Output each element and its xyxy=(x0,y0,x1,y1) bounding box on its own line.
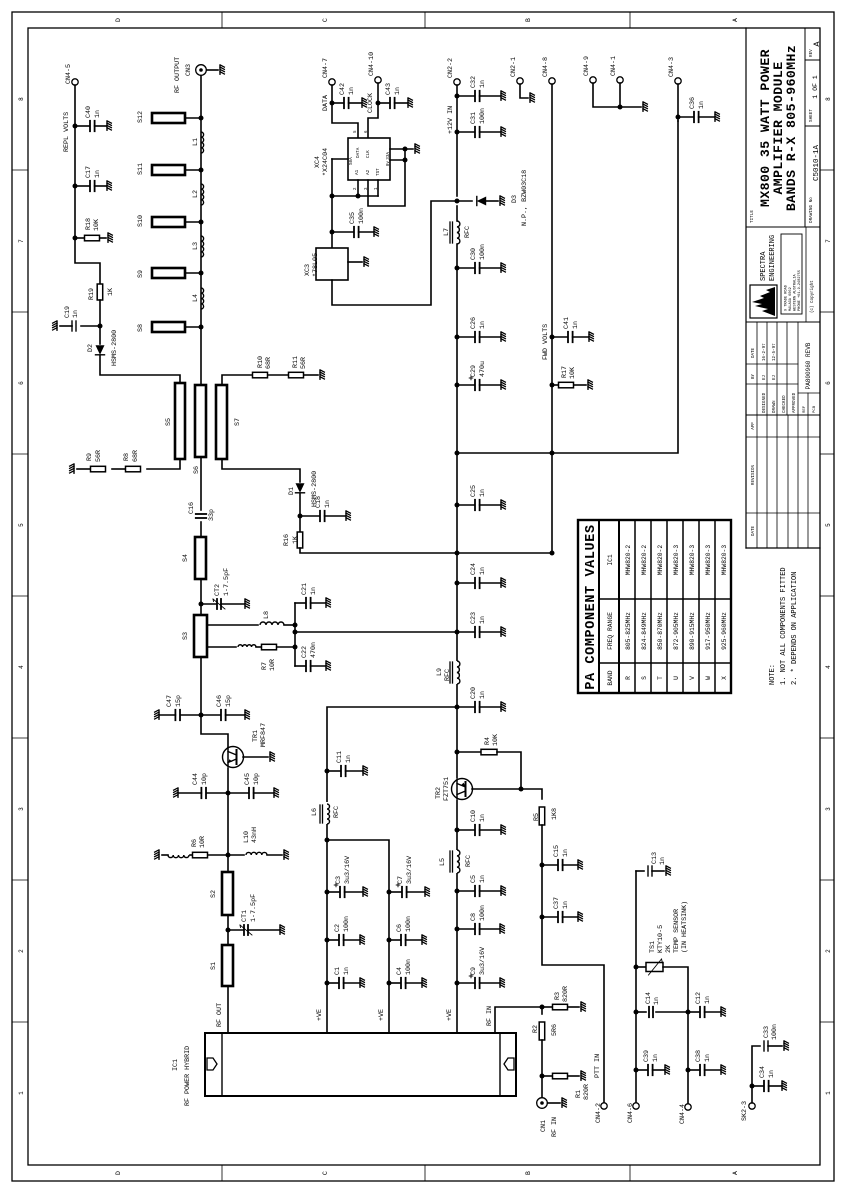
svg-text:R7: R7 xyxy=(261,662,269,670)
svg-text:7: 7 xyxy=(825,239,832,243)
svg-text:4: 4 xyxy=(18,665,25,669)
svg-text:C38: C38 xyxy=(695,1050,703,1062)
svg-text:S11: S11 xyxy=(137,163,145,175)
svg-text:1n: 1n xyxy=(394,87,402,95)
svg-text:805-825MHz: 805-825MHz xyxy=(625,612,632,650)
svg-text:16-2-97: 16-2-97 xyxy=(763,343,767,361)
svg-text:15p: 15p xyxy=(175,695,183,707)
svg-text:1n: 1n xyxy=(94,110,102,118)
svg-text:10p: 10p xyxy=(201,773,209,785)
svg-text:3u3/16V: 3u3/16V xyxy=(406,856,414,884)
svg-text:C15: C15 xyxy=(553,845,561,857)
svg-text:890-915MHz: 890-915MHz xyxy=(689,612,696,650)
svg-text:DATE: DATE xyxy=(752,347,756,358)
svg-text:S7: S7 xyxy=(234,418,242,426)
svg-text:872-905MHz: 872-905MHz xyxy=(673,612,680,650)
svg-text:SK2-3: SK2-3 xyxy=(741,1101,749,1121)
svg-text:R9: R9 xyxy=(86,453,94,461)
svg-text:C41: C41 xyxy=(563,317,571,329)
svg-text:L6: L6 xyxy=(311,808,319,816)
svg-text:C18: C18 xyxy=(315,496,323,508)
svg-text:100n: 100n xyxy=(479,108,487,124)
svg-text:0v: 0v xyxy=(386,161,391,167)
svg-text:CN4-1: CN4-1 xyxy=(610,56,618,76)
svg-text:MHW820-3: MHW820-3 xyxy=(721,545,728,575)
svg-text:100n: 100n xyxy=(343,916,351,932)
svg-text:L3: L3 xyxy=(192,242,200,250)
svg-text:S9: S9 xyxy=(137,270,145,278)
svg-text:R: R xyxy=(625,676,632,680)
svg-text:CT2: CT2 xyxy=(214,584,222,596)
svg-text:RFC: RFC xyxy=(333,806,341,818)
svg-text:L7: L7 xyxy=(443,228,451,236)
svg-text:1n: 1n xyxy=(479,321,487,329)
svg-text:824-849MHz: 824-849MHz xyxy=(641,612,648,650)
svg-text:9 TRADE ROAD: 9 TRADE ROAD xyxy=(785,285,789,311)
svg-text:3u3/16V: 3u3/16V xyxy=(479,947,487,975)
svg-text:MHW820-2: MHW820-2 xyxy=(625,545,632,575)
svg-text:100n: 100n xyxy=(405,916,413,932)
svg-text:CLOCK: CLOCK xyxy=(367,93,375,113)
svg-text:C43: C43 xyxy=(385,83,393,95)
svg-text:R2: R2 xyxy=(532,1025,540,1033)
svg-text:1: 1 xyxy=(825,1091,832,1095)
svg-text:A2: A2 xyxy=(366,169,371,175)
svg-text:C46: C46 xyxy=(216,695,224,707)
svg-text:CN1: CN1 xyxy=(540,1120,548,1132)
svg-text:DATE: DATE xyxy=(752,525,756,536)
svg-text:10R: 10R xyxy=(269,659,277,671)
svg-text:TEMP SENSOR: TEMP SENSOR xyxy=(673,909,681,953)
svg-text:S4: S4 xyxy=(182,554,190,562)
svg-text:850-870MHz: 850-870MHz xyxy=(657,612,664,650)
svg-text:5R6: 5R6 xyxy=(551,1024,559,1036)
svg-text:470u: 470u xyxy=(479,361,487,377)
svg-text:PCB: PCB xyxy=(813,405,817,413)
svg-text:DATA: DATA xyxy=(322,94,330,111)
svg-text:2. * DEPENDS ON APPLICATION: 2. * DEPENDS ON APPLICATION xyxy=(791,572,799,685)
svg-text:TR2: TR2 xyxy=(435,787,443,799)
svg-text:R19: R19 xyxy=(88,288,96,300)
svg-text:3: 3 xyxy=(18,807,25,811)
svg-text:C12: C12 xyxy=(695,992,703,1004)
svg-text:1. NOT ALL COMPONENTS FITTED: 1. NOT ALL COMPONENTS FITTED xyxy=(780,567,788,685)
svg-text:L8: L8 xyxy=(263,611,271,619)
svg-text:CN4-8: CN4-8 xyxy=(542,57,550,77)
svg-text:820R: 820R xyxy=(562,986,570,1002)
svg-text:(c) Copyright: (c) Copyright xyxy=(810,280,815,313)
svg-text:D: D xyxy=(115,18,122,22)
svg-text:925-960MHz: 925-960MHz xyxy=(721,612,728,650)
svg-text:S8: S8 xyxy=(137,324,145,332)
svg-text:7: 7 xyxy=(18,239,25,243)
svg-text:REVISION: REVISION xyxy=(752,464,756,485)
svg-text:RF OUT: RF OUT xyxy=(216,1003,224,1027)
svg-text:WESTERN AUSTRALIA: WESTERN AUSTRALIA xyxy=(794,273,798,311)
svg-text:1n: 1n xyxy=(768,1070,776,1078)
svg-text:L1: L1 xyxy=(192,138,200,146)
svg-text:43nH: 43nH xyxy=(251,827,259,843)
svg-text:1n: 1n xyxy=(343,967,351,975)
svg-text:1n: 1n xyxy=(572,321,580,329)
svg-text:RF OUTPUT: RF OUTPUT xyxy=(174,57,182,93)
svg-text:REPL VOLTS: REPL VOLTS xyxy=(63,112,71,152)
svg-text:1n: 1n xyxy=(479,875,487,883)
svg-text:C24: C24 xyxy=(470,563,478,575)
svg-text:8: 8 xyxy=(18,97,25,101)
svg-text:L2: L2 xyxy=(192,190,200,198)
svg-text:MHW820-3: MHW820-3 xyxy=(689,545,696,575)
svg-text:MHW820-2: MHW820-2 xyxy=(641,545,648,575)
svg-text:S: S xyxy=(641,676,648,680)
svg-text:CN4-3: CN4-3 xyxy=(668,57,676,77)
svg-text:REF: REF xyxy=(803,405,807,413)
svg-text:SPECTRA: SPECTRA xyxy=(760,251,768,281)
svg-text:1n: 1n xyxy=(348,87,356,95)
svg-text:CN2-1: CN2-1 xyxy=(510,57,518,77)
svg-text:(IN HEATSINK): (IN HEATSINK) xyxy=(681,901,689,953)
svg-text:C8: C8 xyxy=(470,913,478,921)
svg-text:R16: R16 xyxy=(283,534,291,546)
svg-text:TST: TST xyxy=(376,168,381,176)
svg-text:C11: C11 xyxy=(336,751,344,763)
svg-text:MALAGA 6062: MALAGA 6062 xyxy=(789,287,793,311)
svg-text:FZT751: FZT751 xyxy=(443,777,451,801)
svg-text:1K8: 1K8 xyxy=(551,808,559,820)
svg-text:+VE: +VE xyxy=(316,1009,324,1021)
svg-text:100n: 100n xyxy=(479,244,487,260)
svg-text:10K: 10K xyxy=(492,734,500,746)
svg-text:1 OF 1: 1 OF 1 xyxy=(812,75,819,99)
svg-text:3u3/16V: 3u3/16V xyxy=(344,856,352,884)
svg-text:IC1: IC1 xyxy=(172,1059,180,1071)
svg-text:ENGINEERING: ENGINEERING xyxy=(769,235,777,281)
svg-text:470n: 470n xyxy=(310,642,318,658)
svg-text:XC3: XC3 xyxy=(304,264,312,276)
svg-text:10p: 10p xyxy=(253,773,261,785)
svg-text:D3: D3 xyxy=(511,195,519,203)
svg-text:C32: C32 xyxy=(470,76,478,88)
svg-text:R3: R3 xyxy=(554,992,562,1000)
svg-text:R10: R10 xyxy=(257,356,265,368)
svg-text:15p: 15p xyxy=(225,695,233,707)
svg-text:DRAWN: DRAWN xyxy=(773,400,777,413)
svg-text:HSMS-2800: HSMS-2800 xyxy=(111,330,119,366)
svg-text:2: 2 xyxy=(18,949,25,953)
svg-text:C44: C44 xyxy=(192,773,200,785)
svg-text:33A: 33A xyxy=(386,152,391,160)
svg-text:C36: C36 xyxy=(689,97,697,109)
svg-text:C42: C42 xyxy=(339,83,347,95)
svg-text:C35: C35 xyxy=(349,212,357,224)
svg-text:A: A xyxy=(732,18,739,22)
svg-text:S0A: S0A xyxy=(349,157,354,165)
svg-text:1n: 1n xyxy=(72,310,80,318)
svg-text:TR1: TR1 xyxy=(252,730,260,742)
svg-text:C14: C14 xyxy=(645,992,653,1004)
svg-text:R17: R17 xyxy=(561,366,569,378)
svg-text:C33: C33 xyxy=(763,1026,771,1038)
svg-text:C13: C13 xyxy=(651,852,659,864)
svg-text:MHW820-2: MHW820-2 xyxy=(657,545,664,575)
svg-text:C10: C10 xyxy=(470,810,478,822)
svg-text:B: B xyxy=(525,18,532,22)
svg-text:TITLE: TITLE xyxy=(750,210,755,223)
svg-text:R6: R6 xyxy=(191,839,199,847)
svg-text:C47: C47 xyxy=(166,695,174,707)
svg-text:RF IN: RF IN xyxy=(486,1006,494,1026)
svg-text:1: 1 xyxy=(18,1091,25,1095)
svg-text:1n: 1n xyxy=(698,101,706,109)
svg-text:100n: 100n xyxy=(479,905,487,921)
svg-text:S10: S10 xyxy=(137,215,145,227)
svg-text:68R: 68R xyxy=(265,357,273,369)
svg-text:8: 8 xyxy=(825,97,832,101)
svg-text:V: V xyxy=(689,676,696,680)
svg-text:1n: 1n xyxy=(562,849,570,857)
svg-text:C4: C4 xyxy=(396,967,404,975)
svg-text:1n: 1n xyxy=(479,489,487,497)
svg-text:C1: C1 xyxy=(334,967,342,975)
svg-text:C34: C34 xyxy=(759,1066,767,1078)
svg-text:PA800960 REVB: PA800960 REVB xyxy=(805,342,812,389)
svg-text:+VE: +VE xyxy=(446,1009,454,1021)
svg-text:C26: C26 xyxy=(470,317,478,329)
svg-text:*X24C04: *X24C04 xyxy=(322,148,330,176)
svg-text:1n: 1n xyxy=(704,1054,712,1062)
svg-text:C29: C29 xyxy=(470,365,478,377)
svg-text:2: 2 xyxy=(825,949,832,953)
svg-text:B: B xyxy=(525,1171,532,1175)
svg-text:D: D xyxy=(115,1171,122,1175)
svg-text:C21: C21 xyxy=(301,583,309,595)
svg-text:1n: 1n xyxy=(94,170,102,178)
svg-text:1n: 1n xyxy=(479,691,487,699)
svg-text:KTY10-5: KTY10-5 xyxy=(657,925,665,953)
svg-text:SHEET: SHEET xyxy=(809,109,814,122)
svg-text:S6: S6 xyxy=(193,466,201,474)
svg-text:CN2-2: CN2-2 xyxy=(447,58,455,78)
svg-text:2K: 2K xyxy=(665,945,673,953)
svg-text:BY: BY xyxy=(752,373,756,379)
svg-text:FREQ RANGE: FREQ RANGE xyxy=(607,612,614,650)
svg-text:L4: L4 xyxy=(192,294,200,302)
svg-text:10K: 10K xyxy=(93,219,101,231)
svg-text:RFC: RFC xyxy=(444,669,452,681)
svg-text:C: C xyxy=(322,18,329,22)
svg-text:BANDS R-X 805-960MHz: BANDS R-X 805-960MHz xyxy=(784,45,799,211)
svg-text:33p: 33p xyxy=(208,509,216,521)
svg-text:C31: C31 xyxy=(470,112,478,124)
svg-text:APP: APP xyxy=(752,422,756,430)
svg-text:EJ: EJ xyxy=(763,374,767,380)
svg-text:C: C xyxy=(322,1171,329,1175)
svg-text:CN4-9: CN4-9 xyxy=(583,56,591,76)
svg-text:C45: C45 xyxy=(244,773,252,785)
svg-text:917-950MHz: 917-950MHz xyxy=(705,612,712,650)
svg-text:12-5-97: 12-5-97 xyxy=(773,343,777,361)
svg-text:W: W xyxy=(705,676,712,680)
svg-text:R8: R8 xyxy=(123,453,131,461)
svg-text:RF POWER HYBRID: RF POWER HYBRID xyxy=(184,1046,192,1106)
svg-text:C39: C39 xyxy=(643,1050,651,1062)
svg-text:C22: C22 xyxy=(301,646,309,658)
svg-text:CLK: CLK xyxy=(366,150,371,158)
svg-text:CT1: CT1 xyxy=(241,910,249,922)
svg-text:TS1: TS1 xyxy=(649,941,657,953)
svg-text:CHECKED: CHECKED xyxy=(783,395,787,413)
svg-text:CN4-5: CN4-5 xyxy=(65,64,73,84)
svg-text:CN4-7: CN4-7 xyxy=(322,58,330,78)
svg-text:5: 5 xyxy=(18,523,25,527)
svg-text:CN4-4: CN4-4 xyxy=(679,1104,687,1124)
svg-text:C19: C19 xyxy=(64,306,72,318)
svg-text:R1: R1 xyxy=(575,1090,583,1098)
svg-text:NOTE:: NOTE: xyxy=(769,664,777,685)
svg-text:PA COMPONENT VALUES: PA COMPONENT VALUES xyxy=(584,524,599,689)
svg-text:DATA: DATA xyxy=(356,147,361,158)
svg-text:CN3: CN3 xyxy=(185,64,193,76)
svg-text:C2: C2 xyxy=(334,924,342,932)
svg-text:C37: C37 xyxy=(553,897,561,909)
svg-text:1n: 1n xyxy=(479,567,487,575)
svg-text:CN4-2: CN4-2 xyxy=(595,1103,603,1123)
svg-text:1n: 1n xyxy=(310,587,318,595)
svg-text:C5: C5 xyxy=(470,875,478,883)
svg-text:X: X xyxy=(721,676,728,680)
svg-text:6: 6 xyxy=(825,381,832,385)
svg-text:MHW820-3: MHW820-3 xyxy=(705,545,712,575)
svg-text:C23: C23 xyxy=(470,612,478,624)
svg-text:1-7.5pF: 1-7.5pF xyxy=(250,894,258,922)
svg-text:1n: 1n xyxy=(704,996,712,1004)
svg-text:S5: S5 xyxy=(165,418,173,426)
svg-text:C40: C40 xyxy=(85,106,93,118)
svg-text:DRAWING No: DRAWING No xyxy=(809,197,814,223)
svg-text:C6: C6 xyxy=(396,924,404,932)
svg-text:1n: 1n xyxy=(479,814,487,822)
svg-text:820R: 820R xyxy=(583,1084,591,1100)
svg-text:1K: 1K xyxy=(292,536,300,544)
svg-text:RFC: RFC xyxy=(465,855,473,867)
svg-text:C20: C20 xyxy=(470,687,478,699)
svg-text:R4: R4 xyxy=(484,737,492,745)
svg-text:1n: 1n xyxy=(562,901,570,909)
svg-text:100n: 100n xyxy=(358,208,366,224)
svg-text:N.P., BZW03C18: N.P., BZW03C18 xyxy=(521,170,529,226)
svg-text:REV: REV xyxy=(809,49,814,57)
svg-text:L9: L9 xyxy=(436,668,444,676)
svg-text:56R: 56R xyxy=(300,357,308,369)
svg-text:C5010-1A: C5010-1A xyxy=(813,145,821,182)
svg-text:EJ: EJ xyxy=(773,374,777,380)
svg-text:100n: 100n xyxy=(405,959,413,975)
svg-text:100n: 100n xyxy=(771,1024,779,1040)
svg-text:XC4: XC4 xyxy=(314,156,322,168)
svg-text:C17: C17 xyxy=(85,166,93,178)
svg-text:C30: C30 xyxy=(470,248,478,260)
svg-text:C16: C16 xyxy=(188,502,196,514)
svg-text:S12: S12 xyxy=(137,111,145,123)
svg-text:1n: 1n xyxy=(652,1054,660,1062)
svg-text:1n: 1n xyxy=(479,616,487,624)
svg-text:U: U xyxy=(673,676,680,680)
svg-text:S3: S3 xyxy=(182,632,190,640)
svg-text:D2: D2 xyxy=(87,344,95,352)
svg-text:RFC: RFC xyxy=(464,226,472,238)
svg-text:RF IN: RF IN xyxy=(551,1117,559,1137)
svg-text:DESIGNED: DESIGNED xyxy=(763,392,767,413)
svg-text:R11: R11 xyxy=(292,356,300,368)
svg-text:R5: R5 xyxy=(533,813,541,821)
svg-text:S2: S2 xyxy=(210,890,218,898)
svg-text:PTT IN: PTT IN xyxy=(594,1054,602,1078)
svg-text:L5: L5 xyxy=(439,858,447,866)
svg-text:6: 6 xyxy=(18,381,25,385)
svg-text:4: 4 xyxy=(825,665,832,669)
svg-text:PHONE +61-9-2482755: PHONE +61-9-2482755 xyxy=(798,270,802,311)
svg-text:CN4-10: CN4-10 xyxy=(368,52,376,76)
svg-text:C25: C25 xyxy=(470,485,478,497)
svg-text:L10: L10 xyxy=(243,831,251,843)
svg-text:1n: 1n xyxy=(659,857,667,865)
svg-text:1n: 1n xyxy=(653,997,661,1005)
svg-text:BAND: BAND xyxy=(607,670,614,685)
svg-text:T: T xyxy=(657,676,664,680)
svg-text:1n: 1n xyxy=(479,80,487,88)
svg-text:FWD VOLTS: FWD VOLTS xyxy=(542,324,550,360)
svg-text:MHW820-3: MHW820-3 xyxy=(673,545,680,575)
svg-text:+VE: +VE xyxy=(378,1009,386,1021)
svg-text:56R: 56R xyxy=(95,450,103,462)
svg-text:1-7.5pF: 1-7.5pF xyxy=(223,568,231,596)
svg-text:APPROVED: APPROVED xyxy=(793,392,797,413)
svg-text:CN4-6: CN4-6 xyxy=(627,1103,635,1123)
svg-text:A1: A1 xyxy=(355,169,360,175)
svg-text:3: 3 xyxy=(825,807,832,811)
svg-text:D1: D1 xyxy=(288,487,296,495)
svg-text:68R: 68R xyxy=(132,450,140,462)
svg-text:1K: 1K xyxy=(107,288,115,296)
svg-text:A: A xyxy=(812,41,822,47)
svg-text:A: A xyxy=(732,1171,739,1175)
svg-text:+12V IN: +12V IN xyxy=(447,106,455,134)
svg-text:1n: 1n xyxy=(345,755,353,763)
svg-text:S1: S1 xyxy=(210,962,218,970)
svg-text:10R: 10R xyxy=(199,836,207,848)
svg-text:IC1: IC1 xyxy=(607,554,614,566)
svg-text:MRF847: MRF847 xyxy=(260,723,268,747)
svg-text:1n: 1n xyxy=(324,500,332,508)
svg-text:R18: R18 xyxy=(85,218,93,230)
svg-text:5: 5 xyxy=(825,523,832,527)
svg-text:*78L05: *78L05 xyxy=(312,253,320,277)
svg-text:10K: 10K xyxy=(569,367,577,379)
